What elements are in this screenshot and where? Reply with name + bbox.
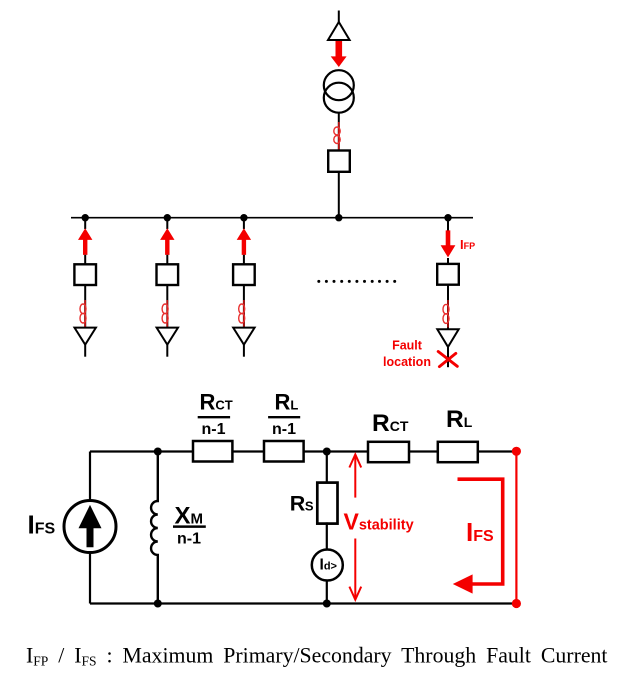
node: bus junction feeder 3 <box>240 214 247 221</box>
load delta winding feeder 3 (triangle down) <box>233 328 254 345</box>
load delta winding feeder 2 (triangle down) <box>157 328 178 345</box>
node: top-left junction <box>154 448 162 456</box>
node: bottom-left junction <box>154 600 162 608</box>
relay Id> <box>312 550 343 581</box>
CT winding feeder 1 (red coil) <box>80 300 86 327</box>
wire: arrow to breaker faulted feeder <box>447 258 449 264</box>
wire: relay to bottom rail <box>326 581 328 604</box>
wire: incoming source stub <box>338 11 340 24</box>
arrow: IFP fault current down (red) <box>441 230 456 257</box>
label XM/(n-1) <box>173 503 206 548</box>
wire: tail feeder 3 <box>243 345 245 357</box>
inductor XM/(n-1) <box>151 452 158 604</box>
dotted continuation of feeders <box>317 280 396 283</box>
fault X mark (red) <box>438 352 457 367</box>
svg-text:Fault: Fault <box>392 338 423 352</box>
CT winding on main feeder (red coil) <box>334 122 340 150</box>
CT winding feeder 2 (red coil) <box>162 300 168 327</box>
node: bus junction faulted feeder <box>444 214 451 221</box>
breaker box feeder 2 <box>157 264 179 285</box>
wire: bus to arrow feeder 1 <box>84 218 86 229</box>
wire: arrow to breaker feeder 2 <box>166 255 168 264</box>
wire: junction to RS <box>326 452 328 484</box>
wire: top rail <box>90 450 516 452</box>
svg-text:n-1: n-1 <box>177 531 201 548</box>
breaker/relay box on main feeder <box>328 151 350 172</box>
wire: transformer to main breaker <box>338 113 340 152</box>
faulted feeder <box>383 218 475 369</box>
wire: right terminal vertical (red) <box>515 451 517 603</box>
wire: tail feeder 2 <box>166 345 168 357</box>
breaker box faulted feeder <box>437 264 459 285</box>
resistor RL/(n-1) <box>264 441 304 462</box>
feeder 1 <box>74 218 96 357</box>
wire: arrow to breaker feeder 1 <box>84 255 86 264</box>
wire: fault tail <box>447 347 449 367</box>
measurement arrow Vstability (red double arrow) <box>349 454 361 599</box>
wire: main box to bus <box>338 172 340 218</box>
feeder 3 <box>233 218 255 357</box>
wire: breaker to load feeder 3 <box>243 285 245 328</box>
wire: breaker to load faulted feeder <box>447 285 449 330</box>
wire: breaker to load feeder 2 <box>166 285 168 328</box>
node: bottom-right terminal (red) <box>512 599 521 608</box>
load delta winding feeder 1 (triangle down) <box>75 328 96 345</box>
current source IFS <box>64 501 116 553</box>
wire: bus to arrow feeder 2 <box>166 218 168 229</box>
svg-text:location: location <box>383 355 431 369</box>
arrow: through-fault current up feeder 3 (red) <box>237 228 251 255</box>
wire: tail feeder 1 <box>84 345 86 357</box>
breaker box feeder 3 <box>233 264 255 285</box>
wire: arrow to breaker feeder 3 <box>243 255 245 264</box>
svg-text:n-1: n-1 <box>202 421 226 438</box>
svg-text:IFP / IFS : Maximum Primary/Se: IFP / IFS : Maximum Primary/Secondary Th… <box>26 644 607 669</box>
node: bus junction feeder 1 <box>82 214 89 221</box>
wire: bus to arrow faulted feeder <box>447 218 449 231</box>
transformer T1 (two-winding circles) <box>324 70 354 113</box>
wire: bottom rail <box>90 602 516 604</box>
node: bus junction feeder 2 <box>164 214 171 221</box>
breaker box feeder 1 <box>74 264 96 285</box>
wire: breaker to load feeder 1 <box>84 285 86 328</box>
resistor RCT (secondary loop) <box>368 442 409 462</box>
label RCT/(n-1) <box>198 390 233 439</box>
arrow: IFS secondary current path (red bracket) <box>453 479 503 593</box>
arrow: through-fault current up feeder 1 (red) <box>78 228 92 255</box>
resistor RL (secondary loop) <box>438 442 478 462</box>
source delta winding triangle (top) <box>328 22 350 40</box>
arrow: through-fault current up feeder 2 (red) <box>160 228 174 255</box>
wire: RS to relay <box>326 522 328 549</box>
node: bottom middle junction <box>323 600 331 608</box>
svg-text:n-1: n-1 <box>272 421 296 438</box>
arrow: primary fault current into transformer (red, down) <box>331 41 347 67</box>
node: top-right terminal (red) <box>512 447 521 456</box>
resistor RS (stabilizing) <box>317 483 337 524</box>
CT winding faulted feeder (red coil) <box>443 300 449 328</box>
label RL/(n-1) <box>268 390 300 439</box>
CT winding feeder 3 (red coil) <box>239 300 245 327</box>
wire: left branch vertical <box>89 452 91 604</box>
bus bar <box>71 217 473 219</box>
wire: bus to arrow feeder 3 <box>243 218 245 229</box>
load delta winding faulted feeder (triangle down) <box>437 329 458 347</box>
node: bus junction main feed <box>335 214 342 221</box>
resistor RCT/(n-1) <box>193 441 232 462</box>
node: top middle junction <box>323 448 331 456</box>
feeder 2 <box>157 218 179 357</box>
